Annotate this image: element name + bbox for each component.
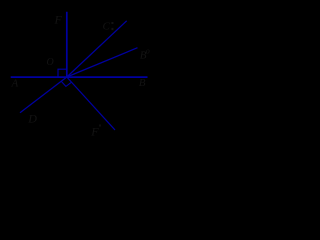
- svg-text:C: C: [103, 21, 111, 33]
- node O: rotated right-angle marker between down-left and down-right rays: [61, 81, 71, 86]
- svg-text:F: F: [54, 13, 63, 27]
- wire: down-right ray O-F': [67, 77, 115, 130]
- svg-text:D: D: [27, 111, 37, 125]
- geometry figure: rays from point O on black background: [0, 0, 168, 153]
- wire: down-left ray O-D: [20, 77, 67, 113]
- wire: middle ray O-B': [67, 48, 138, 77]
- wire: horizontal line A-B through O: [11, 76, 148, 78]
- svg-text:F: F: [90, 125, 99, 139]
- svg-text:o: o: [146, 47, 150, 56]
- svg-text:B: B: [139, 77, 146, 89]
- label dots right of C: [111, 22, 113, 24]
- wire: steep ray O-C: [67, 21, 127, 77]
- svg-text:O: O: [47, 57, 54, 68]
- node O: right-angle marker between vertical and left horizontal: [58, 69, 67, 77]
- wire: vertical ray O-F: [66, 12, 68, 77]
- svg-text:A: A: [11, 77, 19, 89]
